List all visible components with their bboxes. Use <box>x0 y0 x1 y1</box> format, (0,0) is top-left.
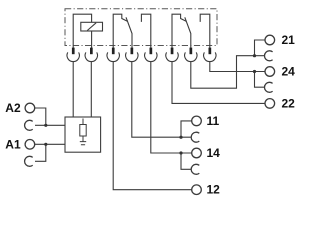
wire A1 to input box <box>35 144 65 161</box>
terminal 12 <box>192 185 202 195</box>
contact 1 blade + common (to socket 4) <box>126 17 132 48</box>
wire socket7 to node 21 <box>191 56 255 88</box>
junction node A1 <box>44 143 47 146</box>
input circuit resistor <box>80 119 86 137</box>
wire bracket 14 group <box>181 153 192 169</box>
terminal 21 <box>265 35 275 45</box>
terminal A1 second level (arc) <box>25 156 33 166</box>
wire bracket 21 group <box>255 40 266 56</box>
relay coil <box>81 22 103 31</box>
svg-text:22: 22 <box>282 96 296 110</box>
svg-text:21: 21 <box>282 33 296 47</box>
terminal 14 <box>192 148 202 158</box>
terminal second level arc under 21 <box>264 51 272 61</box>
svg-text:A1: A1 <box>5 137 21 151</box>
input circuit box <box>65 117 101 152</box>
contact 2 NC fixed contact (from socket 6) <box>172 14 186 48</box>
contact 2 NO fixed contact (from socket 8) <box>200 14 210 48</box>
plug pin 5 <box>145 48 157 62</box>
contact 1 NC fixed contact (from socket 3) <box>113 14 127 48</box>
plug pin 1 <box>67 48 79 62</box>
terminal second level arc under 11 <box>191 132 199 142</box>
svg-text:14: 14 <box>207 146 221 160</box>
contact 2 blade + common (to socket 7) <box>185 17 191 48</box>
terminal 11 <box>192 116 202 126</box>
terminal A2 <box>25 103 35 113</box>
junction node 14 group <box>179 151 182 154</box>
terminal 24 <box>265 67 275 77</box>
terminal second level arc under 24 <box>264 82 272 92</box>
svg-text:A2: A2 <box>5 101 21 115</box>
terminal 22 <box>265 99 275 109</box>
wire bracket 11 group <box>181 121 192 137</box>
terminal A2 second level (arc) <box>25 120 33 130</box>
plug pin 3 <box>107 48 119 62</box>
svg-text:11: 11 <box>207 114 220 128</box>
wire A2 to input box <box>35 108 65 125</box>
contact 1 NO fixed contact (from socket 5) <box>141 14 150 48</box>
wire socket8 to node 24 <box>210 62 255 72</box>
plug pin 6 <box>166 48 178 62</box>
terminal A1 <box>25 140 35 150</box>
junction node 11 group <box>179 136 182 139</box>
wire socket2 to input box <box>90 62 92 117</box>
wire socket6 to terminal 22 <box>172 62 265 104</box>
wire socket1 to input box <box>72 62 74 117</box>
plug pin 2 <box>85 48 97 62</box>
junction node 21 group <box>253 54 256 57</box>
terminal second level arc under 14 <box>191 164 199 174</box>
input circuit capacitor <box>80 136 86 145</box>
wire bracket 24 group <box>255 72 266 88</box>
svg-text:24: 24 <box>282 65 296 79</box>
plug pin 7 <box>185 48 197 62</box>
coil wire (pin1 up-over to coil top, coil bottom to pin2) <box>73 14 91 48</box>
wire socket5 to node 14 <box>151 62 181 153</box>
junction node A2 <box>44 124 47 127</box>
wire socket3 to terminal 12 <box>113 62 192 190</box>
svg-text:12: 12 <box>207 183 221 197</box>
junction node 24 group <box>253 70 256 73</box>
relay enclosure (dash-dot box) <box>65 9 217 46</box>
wire socket4 to node 11 <box>132 62 181 138</box>
plug pin 8 <box>204 48 216 62</box>
plug pin 4 <box>126 48 138 62</box>
